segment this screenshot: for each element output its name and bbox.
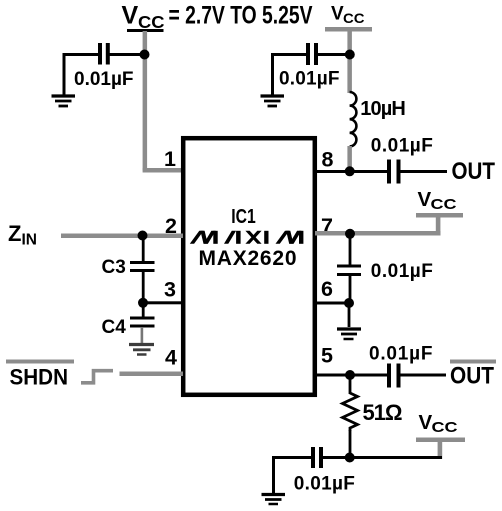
svg-text:V: V — [122, 2, 139, 30]
svg-text:0.01µF: 0.01µF — [371, 261, 433, 282]
wire gray from top-right VCC bar down to inductor — [347, 31, 352, 93]
wire gray from inductor bottom to pin 8 node — [347, 146, 352, 171]
capacitor C4 plates — [130, 318, 155, 326]
capacitor C (pin8 out 0.01uF) plates — [389, 160, 399, 184]
svg-text:MAX2620: MAX2620 — [199, 247, 297, 270]
svg-text:5: 5 — [321, 344, 333, 368]
wire black pin5 node down to resistor — [349, 375, 352, 394]
logo MAXIM — [190, 231, 304, 244]
capacitor C (top-left 0.01uF) plates — [100, 43, 108, 65]
wire gray pin 1 horizontal — [143, 168, 184, 173]
svg-text:0.01µF: 0.01µF — [369, 344, 433, 365]
IC U1 MAX2620 body — [183, 138, 315, 395]
svg-text:SHDN: SHDN — [10, 365, 69, 390]
wire black pin7 node down to cap — [349, 234, 352, 265]
node junction dot at left VCC / C1 — [140, 50, 150, 60]
power rail VCC (mid-right, gray bar) — [416, 213, 463, 218]
wire black vertical down to bottom-left ground — [272, 456, 275, 493]
node junction dot bottom — [345, 453, 355, 463]
wire gray vertical from left VCC bar to pin 1 — [143, 31, 148, 171]
wire black from top-right cap to junction — [271, 53, 306, 56]
node junction dot at top-right VCC / C2 — [345, 50, 355, 60]
svg-text:4: 4 — [165, 346, 177, 370]
svg-text:51Ω: 51Ω — [363, 400, 403, 425]
svg-text:OUT: OUT — [450, 363, 494, 390]
wire gray SHDN step symbol — [81, 371, 113, 383]
wire gray stub from bottom-right VCC bar down — [438, 439, 443, 459]
wire black vertical down to top-left ground — [63, 53, 66, 95]
ground (top-left) — [52, 96, 76, 106]
svg-text:0.01µF: 0.01µF — [371, 136, 433, 157]
wire black C4 to ground stem — [141, 327, 144, 344]
wire black vertical down to top-right ground — [271, 53, 274, 95]
svg-text:6: 6 — [321, 277, 333, 301]
power rail VCC (left, black bar) — [127, 29, 164, 32]
wire black resistor to bottom node — [349, 430, 352, 457]
svg-text:CC: CC — [343, 11, 365, 26]
inductor L1 10uH coil — [350, 92, 357, 146]
svg-text:0.01µF: 0.01µF — [74, 69, 134, 90]
svg-text:8: 8 — [322, 148, 334, 172]
capacitor C (top-right 0.01uF) plates — [308, 43, 316, 65]
wire black from bottom cap left — [272, 456, 311, 459]
wire black bottom horizontal (cap to VCC stub) — [323, 456, 443, 459]
svg-text:= 2.7V TO 5.25V: = 2.7V TO 5.25V — [169, 2, 313, 30]
svg-text:10µH: 10µH — [360, 98, 406, 120]
ground (top-right) — [261, 96, 285, 106]
capacitor C (bottom 0.01uF) plates — [313, 447, 321, 468]
wire black pin 5 horizontal to cap — [315, 374, 387, 377]
svg-text:OUT: OUT — [452, 158, 496, 185]
node junction dot pin8 / L1 — [345, 166, 355, 176]
power rail VCC (bottom-right, gray bar) — [416, 438, 465, 443]
wire gray pin 7 horizontal — [315, 231, 441, 236]
node junction dot pin5 — [345, 370, 355, 380]
node junction dot pin2 / C3 — [138, 231, 148, 241]
wire black cap to OUT (bottom) — [401, 374, 447, 377]
capacitor C (pin5 out 0.01uF) plates — [389, 364, 399, 388]
ground (under C4) — [129, 345, 154, 355]
capacitor C (pin7 0.01uF) plates — [337, 266, 361, 275]
svg-text:1: 1 — [164, 147, 176, 171]
svg-text:3: 3 — [164, 278, 176, 302]
svg-text:0.01µF: 0.01µF — [279, 69, 340, 90]
svg-text:C4: C4 — [102, 317, 127, 338]
ground (under pin6) — [337, 329, 361, 339]
capacitor C3 plates — [130, 263, 155, 271]
wire black pin 8 horizontal to cap — [315, 170, 387, 173]
wire black cap to OUT (top) — [401, 170, 448, 173]
svg-text:V: V — [419, 411, 433, 434]
svg-text:CC: CC — [432, 419, 458, 436]
wire black cap down to pin6 node — [349, 276, 352, 303]
power rail VCC (top-right, gray bar) — [325, 27, 372, 32]
svg-text:0.01µF: 0.01µF — [294, 474, 355, 495]
wire black pin 3 horizontal — [143, 301, 183, 304]
wire gray pin 4 horizontal — [120, 372, 184, 377]
wire black from pin3 node down to C4 — [142, 303, 145, 317]
resistor R1 51ohm zigzag — [343, 393, 358, 431]
label OUT (bottom) with overline — [450, 360, 496, 364]
wire black from top-left cap to junction — [63, 53, 99, 56]
wire black pin6 node down to ground — [348, 303, 351, 327]
ground (bottom-left) — [262, 495, 286, 505]
wire gray stub from mid-right VCC bar down — [436, 215, 441, 235]
svg-text:IC1: IC1 — [231, 205, 256, 228]
node junction dot pin3 — [138, 298, 148, 308]
wire gray ZIN to pin 2 — [61, 234, 183, 239]
wire black from C3 to pin3 node — [142, 272, 145, 303]
svg-text:V: V — [418, 188, 432, 211]
label SHDN with overline — [6, 360, 74, 364]
svg-text:CC: CC — [431, 196, 457, 213]
node junction dot pin7 — [345, 229, 355, 239]
svg-text:C3: C3 — [102, 257, 126, 278]
wire black pin 6 horizontal — [315, 302, 349, 305]
node junction dot pin6 — [344, 298, 354, 308]
wire black from pin2 node down to C3 — [142, 235, 145, 261]
